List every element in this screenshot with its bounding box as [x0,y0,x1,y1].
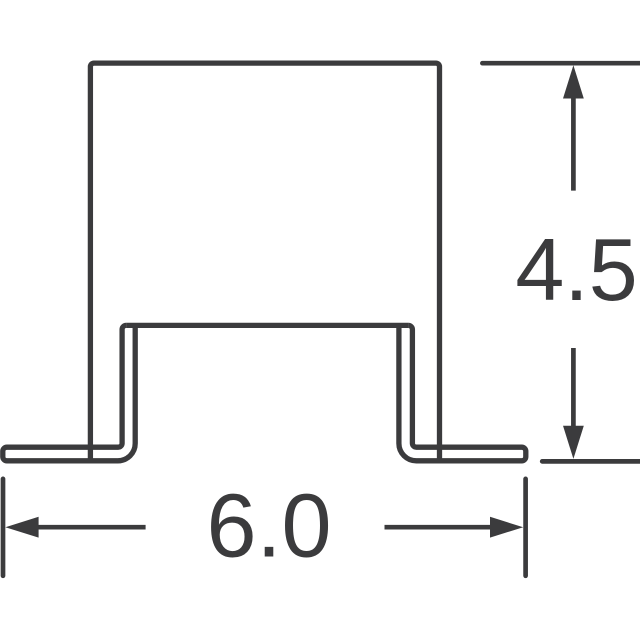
arrowhead left (6.0) [5,517,38,538]
left lead [3,325,135,460]
extension line right (6.0 dim) [523,479,528,576]
extension line top (4.5 dim) [482,61,640,66]
body outline [90,63,439,461]
dimension line 6.0 right segment [385,525,491,530]
svg-text:4.5: 4.5 [515,220,637,319]
svg-text:6.0: 6.0 [206,477,331,577]
right lead [399,325,526,460]
extension line left (6.0 dim) [1,479,6,576]
dimension line 4.5 upper segment [571,97,576,191]
extension line bottom (4.5 dim) [542,459,640,464]
dimension line 4.5 lower segment [571,348,576,427]
arrowhead right (6.0) [490,517,523,538]
arrowhead up (4.5 top) [563,65,584,98]
bottom recess line [126,323,408,328]
arrowhead down (4.5 bottom) [563,426,584,459]
dimension line 6.0 left segment [37,525,146,530]
